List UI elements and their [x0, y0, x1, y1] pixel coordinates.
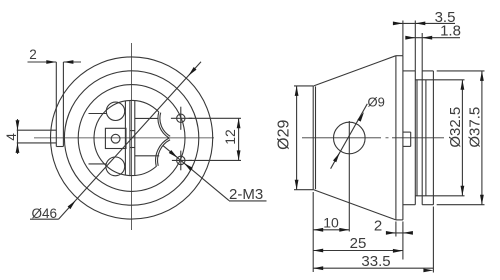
center box bottom — [130, 147, 135, 149]
cone right face — [395, 56, 397, 220]
D37.5 ring1 top — [403, 70, 415, 72]
dim 3.5 extension a — [402, 21, 404, 56]
M3 hole top crosshair v — [180, 107, 182, 130]
cone left face outer — [312, 86, 314, 190]
dim D32.5 line — [461, 80, 463, 196]
dim 1.8 line — [407, 37, 461, 39]
arrow dim2side right — [403, 231, 413, 235]
arrow dim1.8 left — [405, 36, 415, 40]
internal vertical — [425, 80, 427, 196]
wire strip top — [17, 129, 57, 131]
cone bottom slant — [313, 190, 396, 220]
dim 3.5 extension b — [414, 21, 416, 71]
svg-text:4: 4 — [4, 133, 19, 141]
dim 10 left extension — [312, 192, 314, 272]
D9 hole vertical centerline — [348, 121, 350, 232]
svg-text:Ø29: Ø29 — [276, 119, 293, 149]
front view vertical centerline — [131, 43, 133, 230]
svg-text:Ø37.5: Ø37.5 — [467, 107, 484, 148]
D37.5 ring1 bottom — [403, 204, 415, 206]
top pin circle — [106, 102, 124, 120]
arrow 2-M3 upper — [169, 150, 178, 158]
dim 2 side line — [386, 232, 412, 234]
arrow D29 bottom — [295, 180, 299, 190]
back terminal box bottom — [403, 145, 411, 147]
cone top slant — [313, 56, 396, 86]
groove inner line — [416, 80, 418, 196]
dim 10 line — [313, 229, 349, 231]
M3 hole bottom crosshair v — [180, 151, 182, 171]
terminal tab bottom cap — [56, 146, 63, 148]
2-M3 label underline — [229, 200, 267, 202]
arrow dim3.5 left — [393, 22, 403, 26]
D37.5 ring2 top — [422, 70, 433, 72]
side view centerline — [302, 137, 381, 139]
svg-text:Ø32.5: Ø32.5 — [447, 107, 464, 148]
arrow dim10 right — [339, 228, 349, 232]
terminal tab right edge — [62, 62, 64, 147]
svg-text:25: 25 — [350, 235, 367, 252]
arrow dim4 top — [16, 120, 20, 130]
dim 2 front extension left — [55, 62, 57, 66]
back terminal box top — [403, 131, 411, 133]
svg-text:12: 12 — [222, 129, 238, 145]
dim 12 line — [238, 118, 240, 160]
circle D37.5 — [64, 71, 198, 205]
dim 33.5 right extension — [432, 207, 434, 273]
cone left face inner — [315, 86, 317, 189]
M3 hole top — [177, 114, 185, 122]
arrow dim3.5 right — [415, 22, 425, 26]
internal bottom edge / D32.5 extension — [415, 195, 464, 197]
dim D29 line — [296, 86, 298, 190]
right chord — [134, 101, 136, 176]
D46 ring top — [396, 55, 403, 57]
svg-text:Ø46: Ø46 — [32, 206, 58, 221]
dim 2 front line right — [63, 61, 81, 63]
D46 ring right edge — [402, 56, 404, 220]
arrow dim2 front left — [46, 60, 56, 64]
arrow D37.5 top — [480, 71, 484, 81]
band chord right — [129, 100, 131, 175]
svg-text:2-M3: 2-M3 — [229, 186, 263, 203]
wire strip bottom — [17, 142, 57, 144]
dim 2 front line left — [28, 61, 57, 63]
stub to top bite — [135, 117, 159, 119]
arrow D9 lower — [333, 153, 340, 163]
svg-text:Ø9: Ø9 — [368, 95, 385, 110]
M3 hole bottom crosshair h — [172, 159, 192, 161]
band chord left — [124, 101, 126, 176]
D9 leader — [331, 104, 368, 169]
2-M3 leader — [163, 145, 229, 200]
svg-text:33.5: 33.5 — [361, 253, 390, 270]
arrow D9 upper — [357, 112, 364, 122]
dim 1.8 extension — [421, 33, 423, 71]
arrow dim25 left — [313, 249, 323, 253]
arrow dim4 bottom — [16, 143, 20, 153]
arrow D32.5 top — [461, 80, 465, 90]
arrow dim25 right — [393, 249, 403, 253]
square boss — [105, 128, 126, 148]
dim 33.5 line — [313, 267, 433, 269]
svg-text:1.8: 1.8 — [440, 22, 461, 39]
M3 hole bottom — [177, 156, 185, 164]
arrow dim10 left — [313, 228, 323, 232]
arrow D46 upper-right — [188, 67, 196, 76]
inner disc with two bites — [94, 100, 169, 175]
top bite inner edge — [160, 113, 170, 137]
arrow D46 lower-left — [68, 200, 76, 209]
dim D29 bottom extension — [294, 189, 313, 191]
groove left wall — [414, 71, 416, 205]
center box top — [130, 130, 135, 132]
pole plate top edge — [89, 113, 107, 115]
dim 12 extension top — [189, 117, 241, 119]
dim 2 side extension right — [402, 222, 404, 260]
square boss hole — [111, 134, 120, 143]
arrow dim12 top — [237, 118, 241, 128]
arrow dim33.5 right — [423, 269, 433, 273]
D46 ring bottom — [396, 219, 403, 221]
arrow D37.5 bottom — [480, 195, 484, 205]
bolt circle — [78, 85, 185, 192]
dim 2 side extension left — [395, 222, 397, 237]
internal top edge / D32.5 extension — [415, 79, 464, 81]
arrow dim12 bottom — [237, 150, 241, 160]
arrow dim33.5 left — [313, 266, 323, 270]
dim D29 top extension — [294, 85, 313, 87]
front view horizontal centerline — [34, 137, 214, 139]
dim D37.5 top extension — [437, 70, 485, 72]
arrow dim2 front right — [63, 60, 73, 64]
right face — [432, 71, 434, 205]
terminal tab left edge — [55, 62, 57, 147]
back terminal box right — [410, 132, 412, 146]
dim 3.5 line — [396, 22, 456, 24]
bottom pin circle — [106, 157, 125, 176]
dim D37.5 bottom extension — [437, 204, 485, 206]
groove right wall — [421, 71, 423, 205]
stub to bottom bite — [135, 155, 159, 157]
bottom bite inner edge — [158, 140, 171, 166]
dim D37.5 line — [481, 71, 483, 205]
pole plate bottom edge — [89, 163, 107, 165]
svg-text:2: 2 — [29, 47, 37, 62]
arrow 2-M3 lower — [184, 163, 193, 171]
D46 leader — [59, 62, 202, 219]
arrow D32.5 bottom — [461, 186, 465, 196]
M3 hole top crosshair h — [171, 117, 192, 119]
D46 label underline — [30, 218, 59, 220]
dim 12 extension bottom — [189, 159, 241, 161]
arrow dim1.8 right — [422, 36, 432, 40]
arrow D29 top — [295, 86, 299, 96]
arrow dim2side left — [386, 231, 396, 235]
D9 hole — [334, 122, 366, 154]
D37.5 ring2 bottom — [422, 204, 433, 206]
svg-text:10: 10 — [323, 215, 339, 231]
outer circle D46 — [51, 57, 213, 219]
dim 25 line — [313, 250, 403, 252]
dim 4 line — [17, 119, 19, 154]
svg-text:2: 2 — [374, 218, 382, 235]
